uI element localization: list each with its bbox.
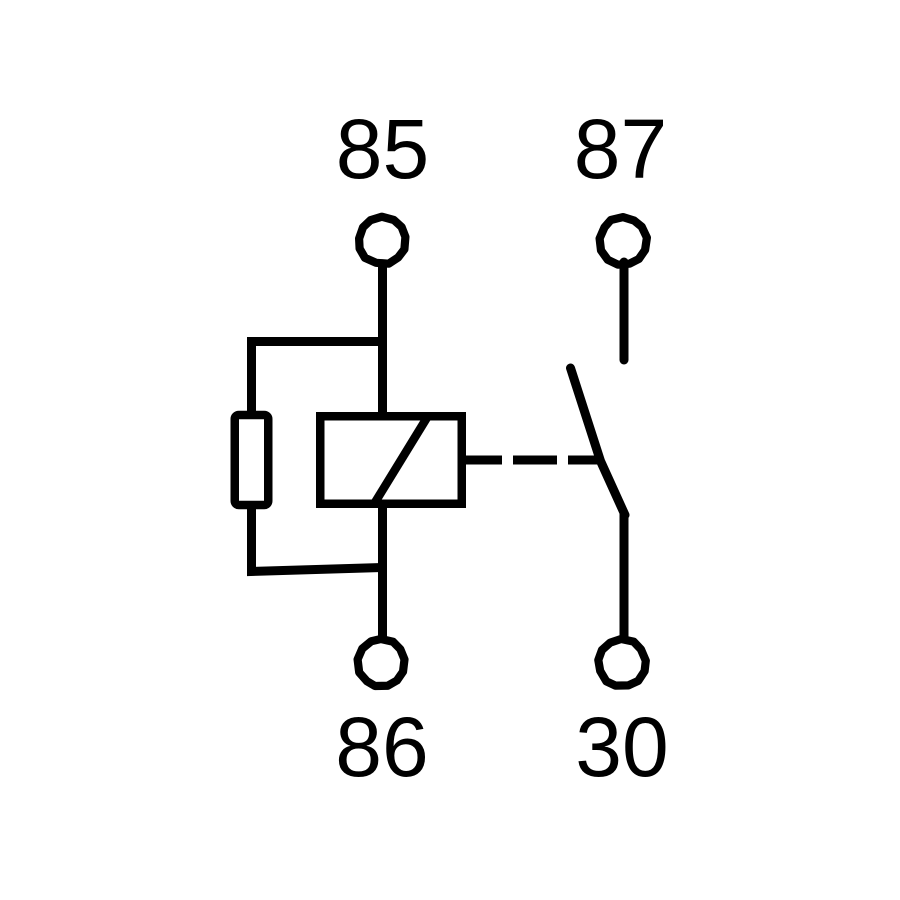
svg-text:86: 86 [335,700,428,794]
svg-text:87: 87 [574,102,667,196]
svg-text:30: 30 [575,700,668,794]
svg-text:85: 85 [336,102,429,196]
